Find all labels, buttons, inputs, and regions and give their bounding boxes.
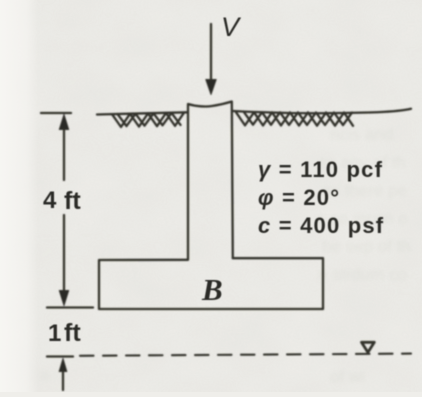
svg-text:a: a xyxy=(40,365,50,384)
svg-text:B: B xyxy=(201,272,223,307)
svg-text:ft: ft xyxy=(64,187,81,215)
svg-text:γ = 110 pcf: γ = 110 pcf xyxy=(258,157,383,182)
svg-text:of wi: of wi xyxy=(330,367,365,386)
svg-text:c = 400 psf: c = 400 psf xyxy=(258,213,384,238)
svg-text:V: V xyxy=(221,12,242,42)
svg-text:be sep of th: be sep of th xyxy=(322,237,411,256)
svg-text:1: 1 xyxy=(48,320,61,347)
svg-text:4: 4 xyxy=(43,187,57,214)
svg-text:n strdum co: n strdum co xyxy=(318,265,407,284)
svg-text:ft: ft xyxy=(64,319,81,347)
svg-text:ncis and: ncis and xyxy=(330,125,393,144)
svg-text:φ = 20°: φ = 20° xyxy=(258,185,340,210)
